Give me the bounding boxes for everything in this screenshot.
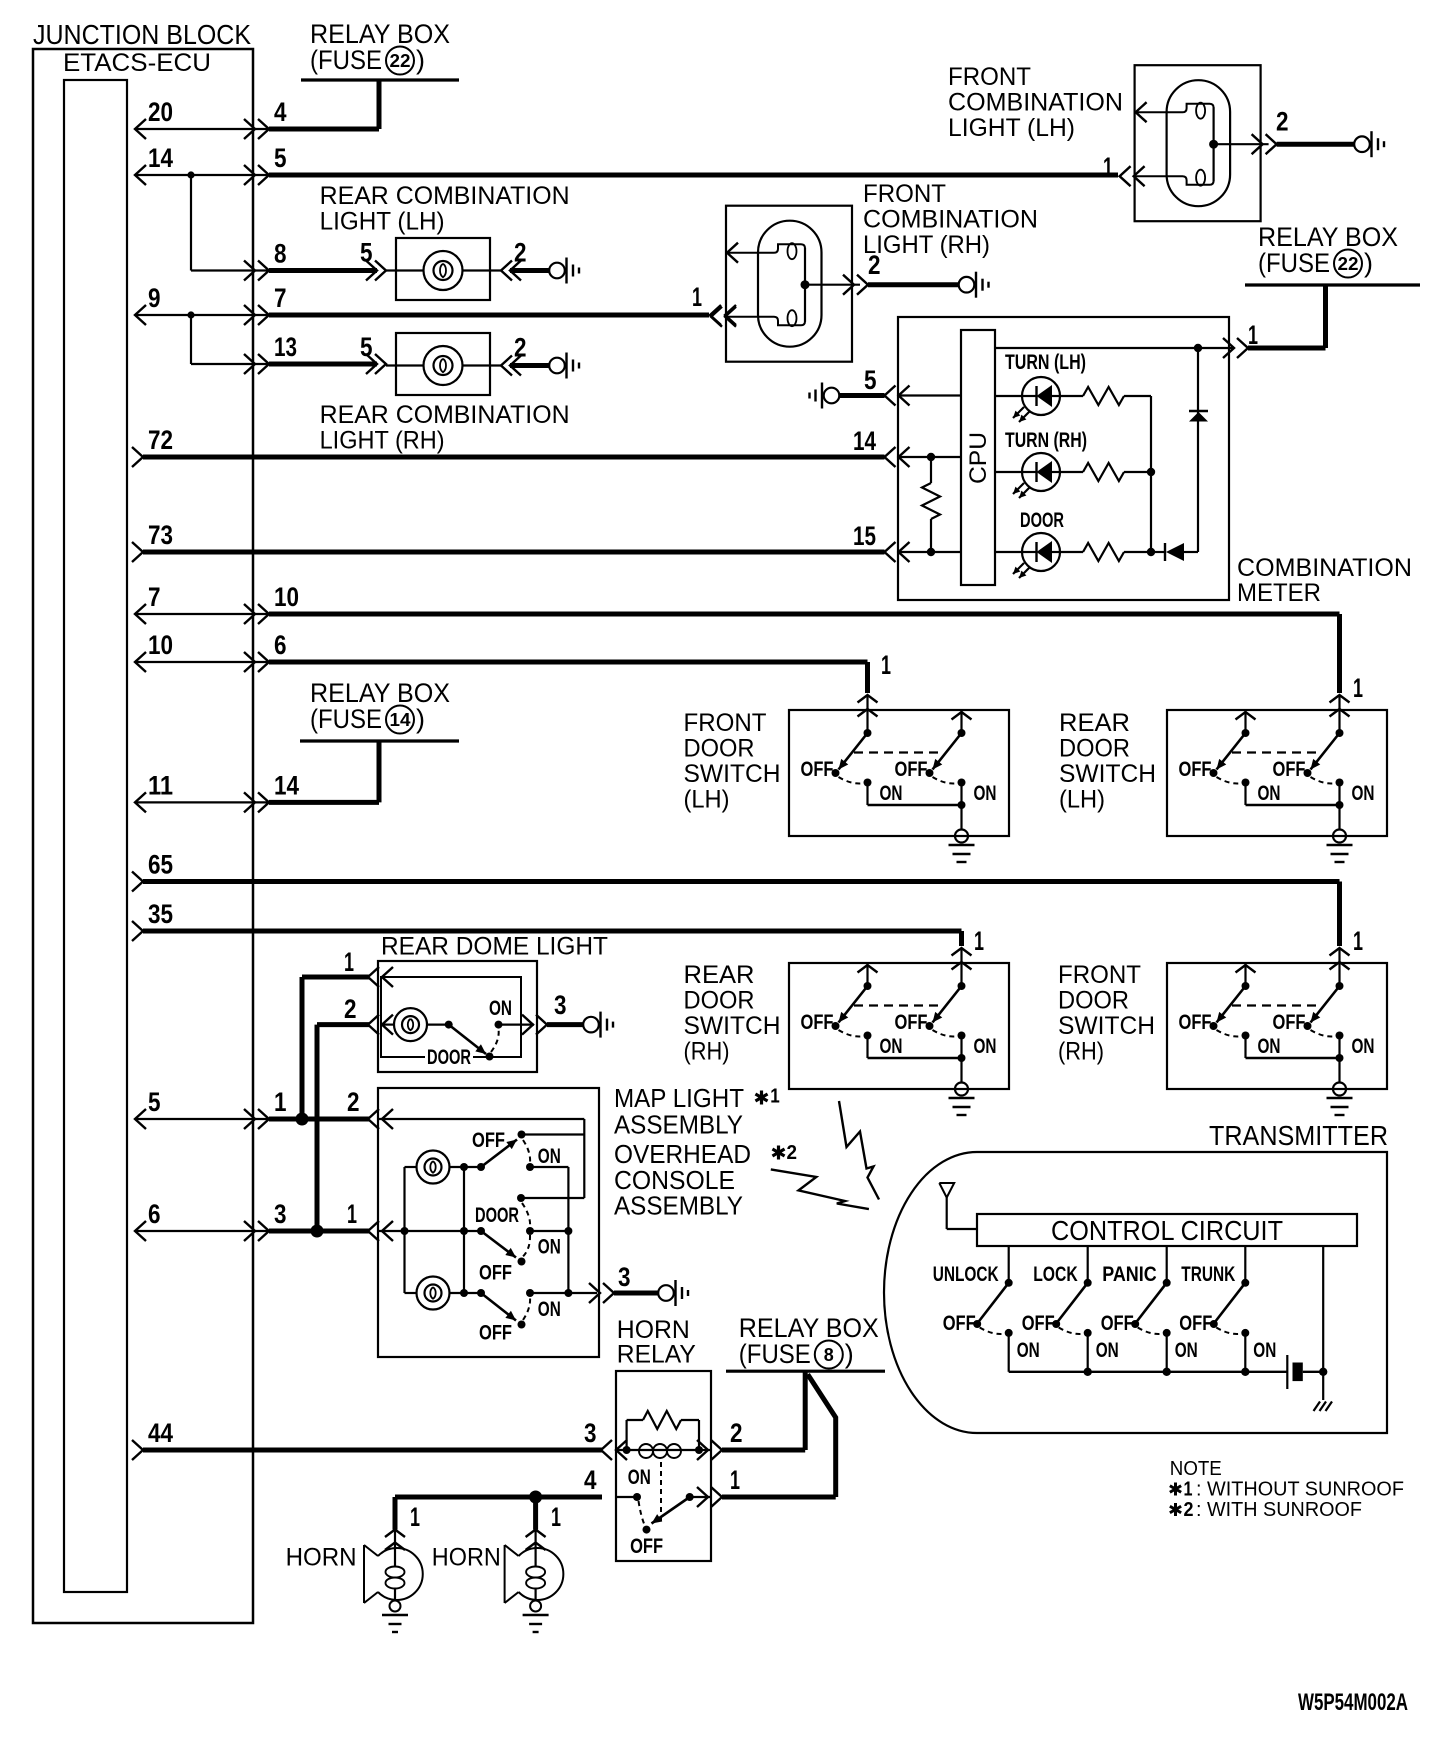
svg-text:ON: ON <box>974 782 997 805</box>
svg-text:14: 14 <box>390 710 411 730</box>
svg-text:CPU: CPU <box>965 432 992 484</box>
svg-text:5: 5 <box>864 365 877 395</box>
svg-text:SWITCH: SWITCH <box>1059 760 1156 788</box>
svg-text:TRUNK: TRUNK <box>1181 1263 1235 1286</box>
svg-text:HORN: HORN <box>432 1543 501 1571</box>
svg-text:UNLOCK: UNLOCK <box>933 1263 999 1286</box>
svg-text:(RH): (RH) <box>1058 1038 1104 1066</box>
svg-text:7: 7 <box>148 582 161 612</box>
svg-text:DOOR: DOOR <box>475 1204 519 1227</box>
svg-text:OFF: OFF <box>943 1312 976 1335</box>
svg-text:OFF: OFF <box>1022 1312 1055 1335</box>
svg-text:DOOR: DOOR <box>1059 734 1130 762</box>
svg-text:8: 8 <box>824 1345 834 1365</box>
svg-text:1: 1 <box>730 1465 740 1495</box>
svg-text:OFF: OFF <box>801 1011 834 1034</box>
svg-text:ON: ON <box>1352 1035 1375 1058</box>
svg-text:1: 1 <box>344 947 354 977</box>
svg-text:1: 1 <box>770 1086 780 1108</box>
svg-text:2: 2 <box>514 333 527 363</box>
svg-text:DOOR: DOOR <box>427 1046 471 1069</box>
svg-text:5: 5 <box>148 1087 161 1117</box>
svg-text:2: 2 <box>1184 1499 1194 1521</box>
svg-text:1: 1 <box>881 650 891 680</box>
svg-text:): ) <box>416 704 425 734</box>
svg-text:COMBINATION: COMBINATION <box>1237 554 1412 582</box>
svg-text:6: 6 <box>148 1199 161 1229</box>
svg-text:): ) <box>416 45 425 75</box>
svg-text:OFF: OFF <box>1179 1011 1212 1034</box>
svg-text:1: 1 <box>974 926 984 956</box>
svg-text:1: 1 <box>1353 673 1363 703</box>
svg-text:72: 72 <box>148 425 173 455</box>
svg-text:NOTE: NOTE <box>1170 1458 1222 1480</box>
svg-text:(LH): (LH) <box>684 785 730 813</box>
svg-text:ON: ON <box>1175 1339 1198 1362</box>
svg-text:(FUSE: (FUSE <box>1258 248 1330 278</box>
svg-text:FRONT: FRONT <box>863 180 946 208</box>
svg-text:3: 3 <box>274 1199 287 1229</box>
svg-text:2: 2 <box>347 1087 360 1117</box>
svg-text:1: 1 <box>1103 152 1113 182</box>
svg-text:(FUSE: (FUSE <box>310 704 382 734</box>
svg-text:OFF: OFF <box>1101 1312 1134 1335</box>
svg-text:14: 14 <box>274 770 299 800</box>
svg-text:LIGHT (LH): LIGHT (LH) <box>948 114 1075 142</box>
svg-text:(FUSE: (FUSE <box>310 45 382 75</box>
svg-text:OFF: OFF <box>1179 1312 1212 1335</box>
svg-text:ON: ON <box>538 1298 561 1321</box>
svg-text:5: 5 <box>360 238 373 268</box>
svg-text:1: 1 <box>347 1199 357 1229</box>
svg-text:LIGHT (RH): LIGHT (RH) <box>320 427 445 455</box>
svg-text:OFF: OFF <box>895 758 928 781</box>
svg-text:ETACS-ECU: ETACS-ECU <box>63 49 211 77</box>
svg-text:FRONT: FRONT <box>1058 961 1141 989</box>
svg-text:OFF: OFF <box>895 1011 928 1034</box>
svg-text:): ) <box>845 1339 854 1369</box>
svg-text:SWITCH: SWITCH <box>684 1012 781 1040</box>
svg-text:1: 1 <box>410 1502 420 1532</box>
svg-text:TRANSMITTER: TRANSMITTER <box>1209 1120 1388 1151</box>
svg-text:DOOR: DOOR <box>684 734 755 762</box>
svg-text:35: 35 <box>148 899 173 929</box>
svg-text:OFF: OFF <box>1273 758 1306 781</box>
svg-text:(RH): (RH) <box>684 1038 730 1066</box>
svg-text:: WITH SUNROOF: : WITH SUNROOF <box>1196 1499 1362 1521</box>
svg-text:SWITCH: SWITCH <box>684 760 781 788</box>
svg-text:REAR: REAR <box>1059 709 1130 737</box>
svg-text:2: 2 <box>514 238 527 268</box>
svg-text:10: 10 <box>148 630 173 660</box>
svg-text:ASSEMBLY: ASSEMBLY <box>614 1191 743 1221</box>
svg-text:FRONT: FRONT <box>684 709 767 737</box>
svg-text:7: 7 <box>274 283 287 313</box>
svg-text:ON: ON <box>880 1035 903 1058</box>
svg-text:OFF: OFF <box>479 1322 512 1345</box>
svg-text:REAR DOME LIGHT: REAR DOME LIGHT <box>381 933 608 961</box>
svg-text:OFF: OFF <box>1273 1011 1306 1034</box>
svg-text:9: 9 <box>148 283 161 313</box>
svg-text:(FUSE: (FUSE <box>739 1339 811 1369</box>
svg-text:2: 2 <box>1276 107 1289 137</box>
svg-text:22: 22 <box>390 51 411 71</box>
svg-text:DOOR: DOOR <box>1020 509 1064 532</box>
svg-text:HORN: HORN <box>286 1543 357 1571</box>
svg-text:OFF: OFF <box>1179 758 1212 781</box>
svg-text:REAR COMBINATION: REAR COMBINATION <box>320 182 570 210</box>
svg-text:OFF: OFF <box>630 1535 663 1558</box>
svg-text:ON: ON <box>1352 782 1375 805</box>
svg-text:MAP LIGHT: MAP LIGHT <box>614 1083 744 1113</box>
svg-text:REAR COMBINATION: REAR COMBINATION <box>320 401 570 429</box>
svg-text:DOOR: DOOR <box>684 987 755 1015</box>
svg-text:3: 3 <box>584 1418 597 1448</box>
svg-text:SWITCH: SWITCH <box>1058 1012 1155 1040</box>
svg-text:1: 1 <box>1353 926 1363 956</box>
svg-text:73: 73 <box>148 520 173 550</box>
svg-text:(LH): (LH) <box>1059 785 1105 813</box>
svg-text:65: 65 <box>148 850 173 880</box>
svg-text:JUNCTION BLOCK: JUNCTION BLOCK <box>33 19 251 50</box>
svg-text:REAR: REAR <box>684 961 755 989</box>
svg-text:ON: ON <box>974 1035 997 1058</box>
svg-text:LIGHT (RH): LIGHT (RH) <box>863 231 990 259</box>
svg-text:COMBINATION: COMBINATION <box>863 206 1038 234</box>
svg-text:RELAY: RELAY <box>617 1341 696 1369</box>
svg-text:ON: ON <box>1253 1339 1276 1362</box>
svg-text:22: 22 <box>1338 254 1359 274</box>
svg-text:TURN (LH): TURN (LH) <box>1005 351 1086 374</box>
svg-text:2: 2 <box>730 1418 743 1448</box>
svg-text:ASSEMBLY: ASSEMBLY <box>614 1110 743 1140</box>
svg-text:ON: ON <box>1258 782 1281 805</box>
svg-text:2: 2 <box>344 994 357 1024</box>
svg-text:ON: ON <box>1096 1339 1119 1362</box>
svg-text:1: 1 <box>1184 1479 1193 1501</box>
svg-text:14: 14 <box>148 143 173 173</box>
svg-text:4: 4 <box>274 97 287 127</box>
svg-text:PANIC: PANIC <box>1102 1263 1157 1286</box>
svg-text:10: 10 <box>274 582 299 612</box>
svg-text:1: 1 <box>274 1087 287 1117</box>
svg-text:1: 1 <box>551 1502 561 1532</box>
svg-text:5: 5 <box>274 143 287 173</box>
svg-text:ON: ON <box>628 1466 651 1489</box>
svg-text:2: 2 <box>787 1142 798 1164</box>
svg-text:4: 4 <box>584 1465 597 1495</box>
svg-text:14: 14 <box>853 426 876 456</box>
svg-text:ON: ON <box>489 997 512 1020</box>
svg-text:FRONT: FRONT <box>948 63 1031 91</box>
svg-text:3: 3 <box>554 990 567 1020</box>
svg-text:OFF: OFF <box>472 1129 505 1152</box>
svg-text:ON: ON <box>538 1236 561 1259</box>
svg-text:COMBINATION: COMBINATION <box>948 89 1123 117</box>
svg-text:ON: ON <box>538 1145 561 1168</box>
svg-text:DOOR: DOOR <box>1058 987 1129 1015</box>
svg-text:LOCK: LOCK <box>1033 1263 1078 1286</box>
svg-text:ON: ON <box>880 782 903 805</box>
svg-text:11: 11 <box>148 770 173 800</box>
svg-text:): ) <box>1364 248 1373 278</box>
svg-text:44: 44 <box>148 1418 173 1448</box>
svg-text:ON: ON <box>1017 1339 1040 1362</box>
svg-text:LIGHT (LH): LIGHT (LH) <box>320 208 445 236</box>
svg-text:1: 1 <box>1248 320 1258 350</box>
svg-text:METER: METER <box>1237 579 1321 607</box>
svg-text:13: 13 <box>274 332 297 362</box>
svg-text:1: 1 <box>692 282 702 312</box>
svg-text:: WITHOUT SUNROOF: : WITHOUT SUNROOF <box>1196 1479 1404 1501</box>
svg-text:3: 3 <box>618 1262 631 1292</box>
svg-text:20: 20 <box>148 97 173 127</box>
svg-text:OFF: OFF <box>479 1262 512 1285</box>
svg-text:6: 6 <box>274 630 287 660</box>
svg-text:15: 15 <box>853 521 876 551</box>
svg-text:TURN (RH): TURN (RH) <box>1005 429 1087 452</box>
svg-text:OFF: OFF <box>801 758 834 781</box>
svg-text:W5P54M002A: W5P54M002A <box>1298 1689 1408 1716</box>
svg-text:ON: ON <box>1258 1035 1281 1058</box>
svg-text:CONTROL CIRCUIT: CONTROL CIRCUIT <box>1051 1215 1283 1246</box>
svg-text:8: 8 <box>274 239 287 269</box>
